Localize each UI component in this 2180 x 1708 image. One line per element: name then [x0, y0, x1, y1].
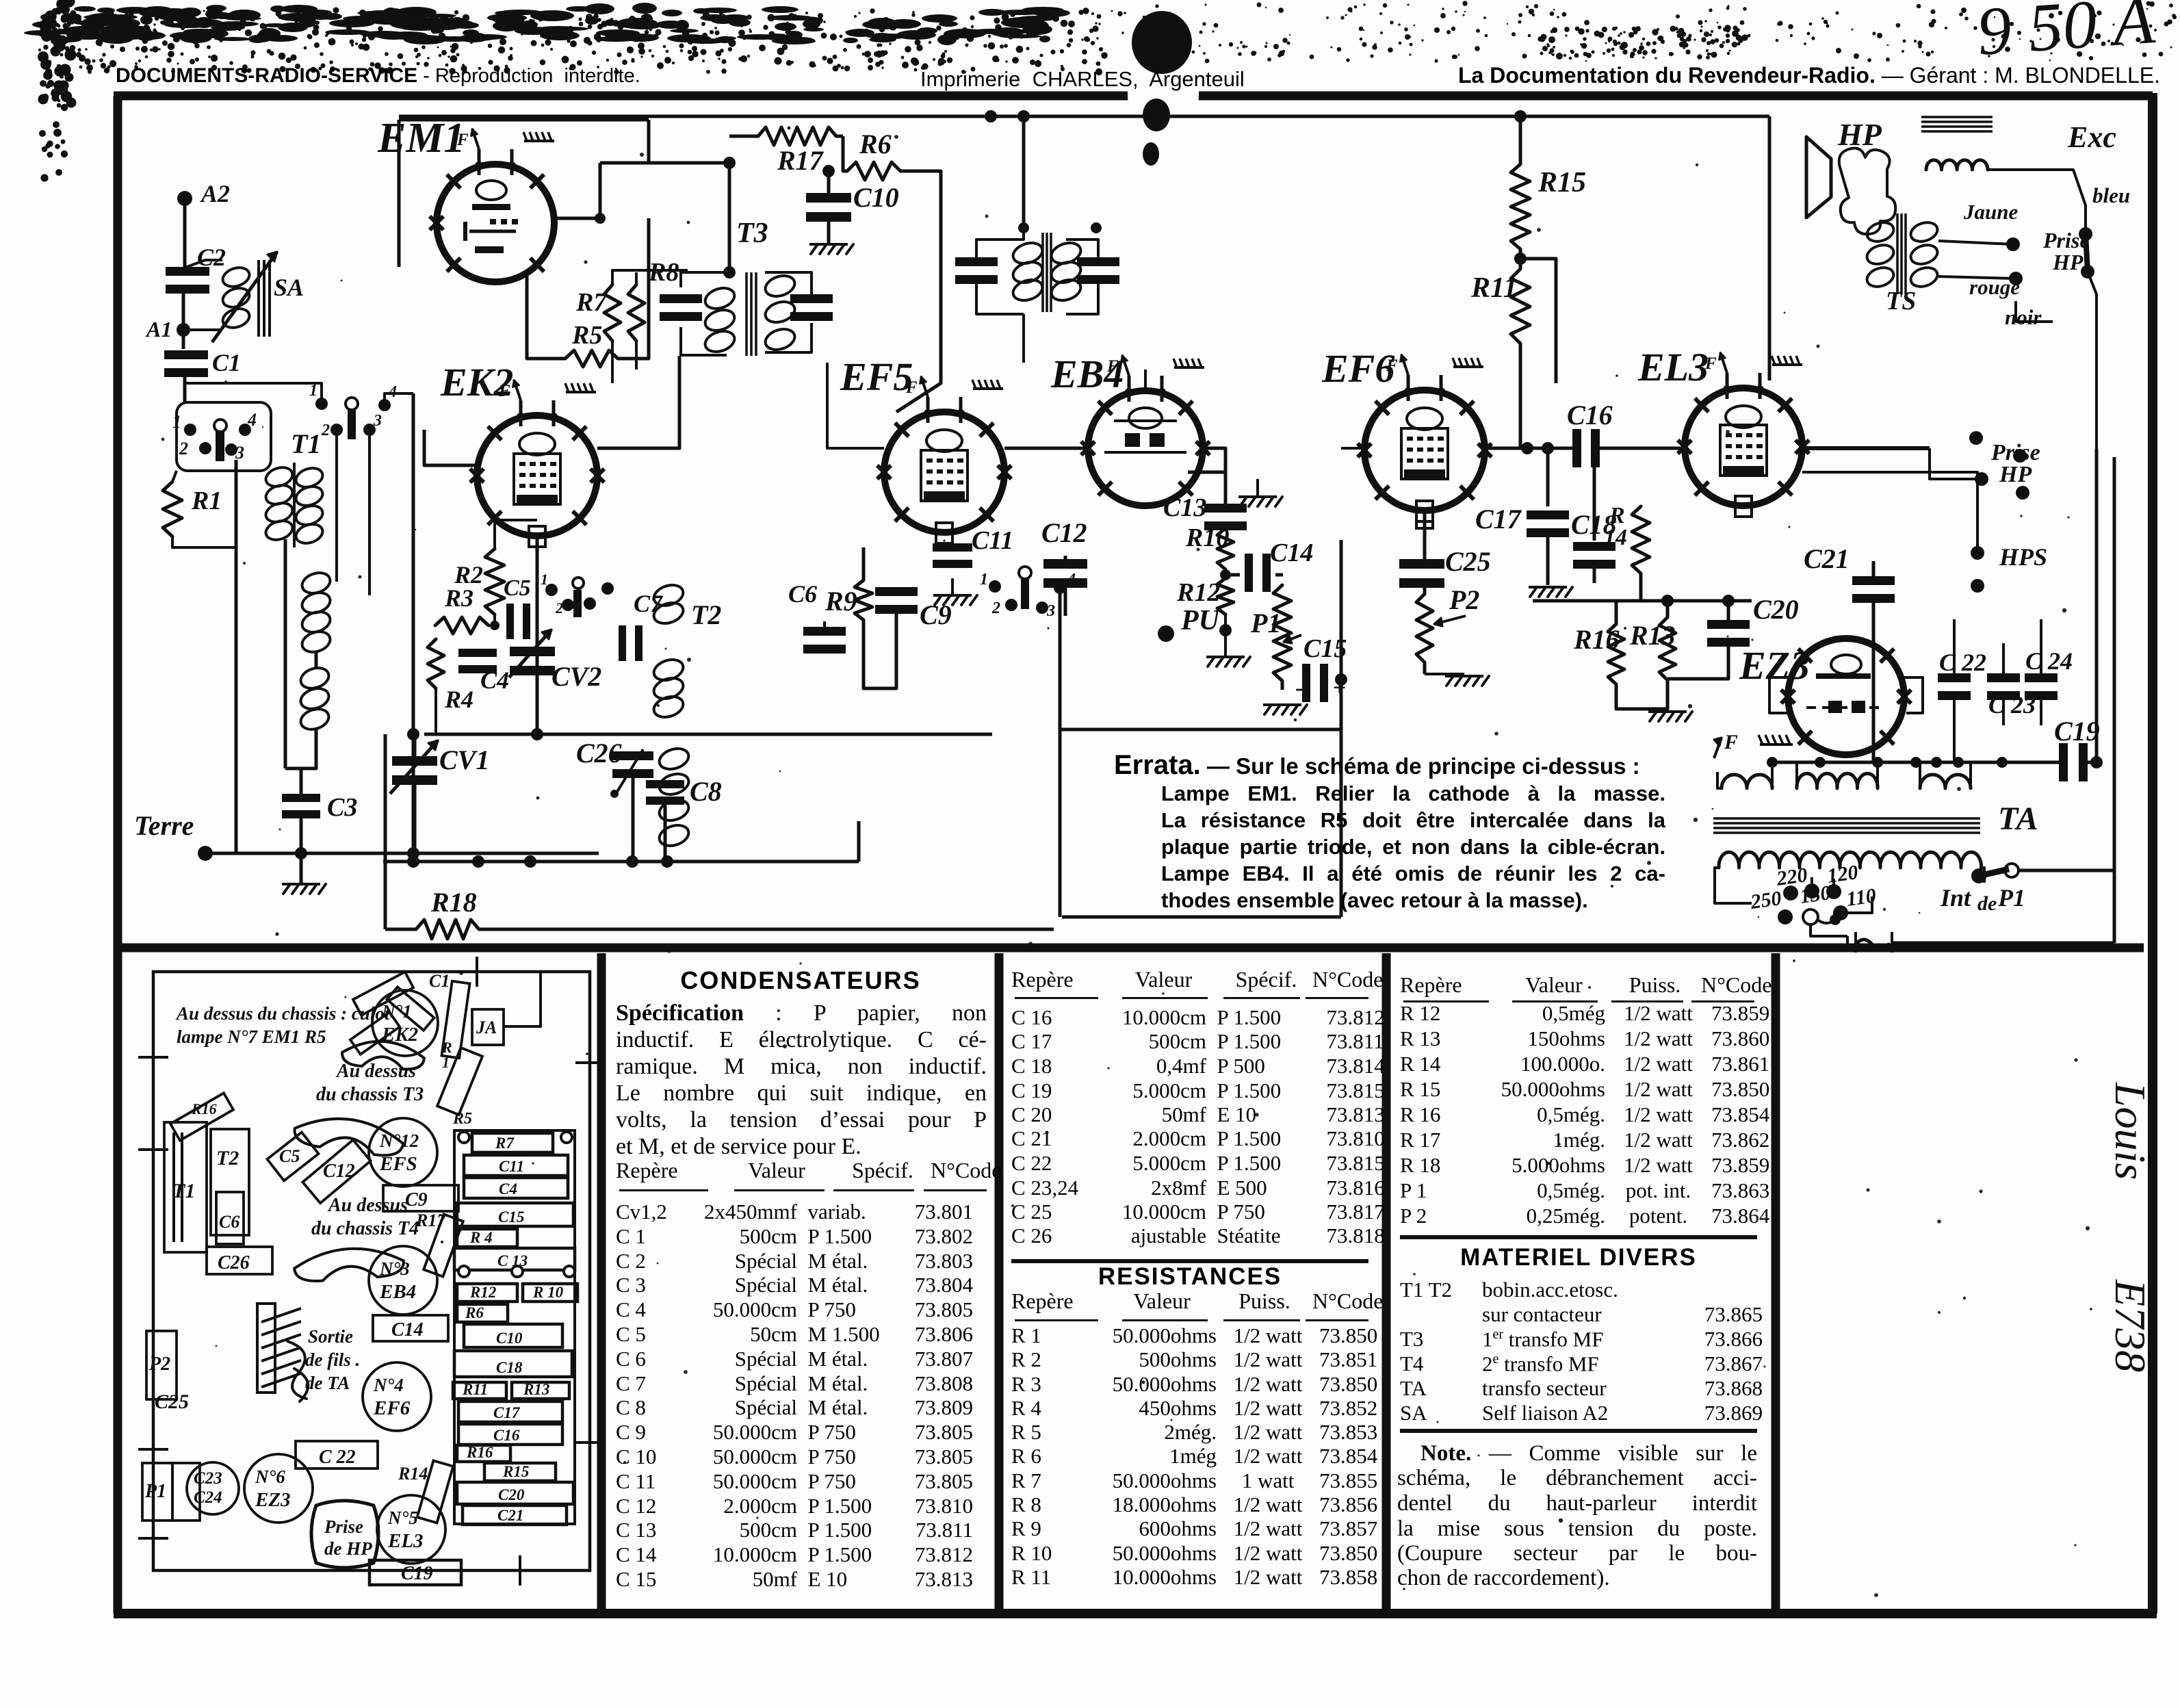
svg-text:Terre: Terre	[134, 810, 194, 841]
svg-text:EL3: EL3	[1637, 345, 1709, 389]
svg-text:R7: R7	[575, 288, 608, 317]
svg-text:C15: C15	[498, 1208, 524, 1226]
svg-text:R12: R12	[1176, 578, 1220, 607]
svg-text:Prise: Prise	[324, 1516, 363, 1537]
svg-text:C3: C3	[327, 793, 357, 822]
svg-text:C 22: C 22	[319, 1447, 356, 1468]
svg-text:T1: T1	[291, 428, 321, 459]
svg-text:Louis: Louis	[2106, 1082, 2155, 1180]
svg-text:R15: R15	[1537, 167, 1586, 198]
svg-text:T1: T1	[172, 1180, 195, 1202]
svg-text:F: F	[1724, 731, 1738, 753]
svg-text:CV2: CV2	[552, 661, 601, 692]
svg-text:EB4: EB4	[379, 1281, 416, 1303]
svg-text:P1: P1	[1250, 608, 1281, 638]
svg-text:C16: C16	[493, 1427, 520, 1444]
svg-text:C19: C19	[401, 1563, 433, 1584]
svg-text:R4: R4	[444, 686, 473, 713]
svg-text:C5: C5	[279, 1146, 300, 1166]
svg-text:rouge: rouge	[1969, 275, 2020, 299]
svg-text:Int: Int	[1940, 884, 1971, 911]
svg-text:2: 2	[555, 599, 563, 617]
svg-text:C10: C10	[853, 182, 899, 213]
svg-text:1: 1	[980, 571, 988, 588]
svg-text:C20: C20	[1753, 594, 1799, 625]
svg-text:T2: T2	[691, 599, 721, 630]
svg-text:bleu: bleu	[2092, 183, 2130, 207]
svg-text:EF6: EF6	[1321, 346, 1394, 391]
svg-text:C16: C16	[1567, 400, 1613, 430]
svg-text:EF6: EF6	[373, 1397, 411, 1419]
svg-text:C25: C25	[1445, 546, 1491, 577]
svg-text:C14: C14	[391, 1319, 424, 1341]
svg-text:R14: R14	[398, 1464, 428, 1484]
svg-text:de fils .: de fils .	[305, 1349, 360, 1370]
svg-text:P1: P1	[1997, 884, 2025, 911]
svg-text:R5: R5	[571, 321, 602, 350]
svg-text:3: 3	[1046, 602, 1055, 620]
svg-text:Au dessus du chassis : culot: Au dessus du chassis : culot	[175, 1003, 391, 1024]
svg-text:C4: C4	[499, 1180, 517, 1198]
svg-text:R6: R6	[465, 1304, 484, 1321]
svg-text:C19: C19	[2054, 716, 2100, 747]
svg-text:R12: R12	[469, 1284, 496, 1301]
svg-text:N°1: N°1	[381, 1001, 412, 1022]
svg-text:C2: C2	[197, 244, 226, 271]
svg-text:R13: R13	[1629, 620, 1676, 651]
svg-text:C14: C14	[1270, 539, 1313, 567]
svg-text:R 10: R 10	[532, 1284, 564, 1301]
svg-text:PU: PU	[1180, 605, 1221, 636]
svg-text:Exc: Exc	[2067, 120, 2116, 154]
svg-text:R11: R11	[462, 1381, 488, 1398]
svg-text:120: 120	[1826, 861, 1859, 888]
svg-text:JA: JA	[476, 1018, 497, 1037]
svg-text:T2: T2	[216, 1147, 239, 1169]
svg-text:TA: TA	[1998, 801, 2038, 837]
svg-text:R16: R16	[191, 1100, 217, 1117]
svg-text:CV1: CV1	[439, 745, 489, 775]
svg-text:EB4: EB4	[1050, 352, 1124, 396]
svg-text:HP: HP	[1837, 117, 1882, 152]
svg-text:C17: C17	[493, 1404, 521, 1421]
svg-text:HP: HP	[1999, 462, 2032, 487]
svg-text:E738: E738	[2106, 1279, 2155, 1372]
svg-text:R11: R11	[1470, 272, 1518, 304]
svg-text:R10: R10	[1185, 523, 1229, 552]
svg-text:C21: C21	[1804, 543, 1850, 574]
svg-text:Jaune: Jaune	[1963, 200, 2018, 224]
svg-text:C12: C12	[1041, 517, 1087, 548]
svg-text:R6: R6	[859, 129, 892, 159]
svg-text:4: 4	[247, 410, 257, 430]
svg-text:N°4: N°4	[373, 1375, 404, 1395]
svg-text:C20: C20	[498, 1486, 525, 1503]
svg-text:Prise: Prise	[2042, 228, 2090, 253]
svg-text:C25: C25	[155, 1390, 189, 1413]
svg-text:R 4: R 4	[469, 1229, 493, 1246]
svg-text:de HP: de HP	[324, 1538, 372, 1559]
svg-text:C 22: C 22	[1939, 649, 1986, 676]
svg-text:C23: C23	[194, 1469, 222, 1488]
svg-text:N°3: N°3	[379, 1258, 410, 1279]
svg-text:R8: R8	[648, 258, 679, 287]
svg-text:C6: C6	[788, 580, 817, 608]
svg-text:A2: A2	[200, 180, 230, 207]
svg-text:C5: C5	[504, 575, 531, 601]
svg-text:SA: SA	[274, 274, 304, 301]
svg-text:R17: R17	[777, 145, 825, 176]
svg-text:R16: R16	[466, 1444, 493, 1461]
svg-text:R7: R7	[495, 1135, 515, 1152]
svg-text:R1: R1	[191, 487, 222, 515]
svg-text:du chassis T3: du chassis T3	[316, 1084, 424, 1105]
svg-text:de TA: de TA	[305, 1373, 350, 1393]
svg-text:N°6: N°6	[255, 1466, 285, 1487]
svg-text:C8: C8	[690, 776, 722, 807]
svg-text:C6: C6	[219, 1212, 239, 1232]
svg-text:HPS: HPS	[1999, 543, 2047, 571]
svg-text:de: de	[1977, 892, 1997, 915]
svg-text:A1: A1	[145, 317, 172, 341]
svg-text:1: 1	[172, 412, 181, 432]
svg-text:Au dessus: Au dessus	[327, 1195, 408, 1216]
svg-text:noir: noir	[2005, 305, 2042, 329]
svg-text:C17: C17	[1475, 504, 1522, 534]
svg-text:EF5: EF5	[840, 354, 913, 399]
svg-text:C11: C11	[499, 1158, 524, 1175]
svg-text:HP: HP	[2052, 250, 2084, 274]
svg-text:P2: P2	[148, 1354, 170, 1375]
svg-text:C24: C24	[194, 1488, 222, 1507]
svg-text:14: 14	[1604, 525, 1627, 550]
svg-text:3: 3	[373, 412, 382, 430]
svg-text:C18: C18	[496, 1359, 523, 1376]
svg-text:R5: R5	[452, 1110, 472, 1128]
svg-text:R16: R16	[1573, 624, 1620, 655]
svg-text:P2: P2	[1449, 584, 1479, 615]
svg-text:C11: C11	[972, 526, 1013, 555]
svg-text:lampe N°7 EM1 R5: lampe N°7 EM1 R5	[177, 1026, 326, 1047]
svg-text:1: 1	[442, 1054, 450, 1071]
svg-text:P1: P1	[144, 1481, 166, 1502]
svg-text:EM1: EM1	[377, 115, 465, 161]
svg-text:250: 250	[1748, 887, 1782, 914]
svg-text:C9: C9	[405, 1189, 428, 1211]
svg-text:C1: C1	[429, 971, 450, 991]
svg-text:EK2: EK2	[440, 360, 513, 404]
svg-text:C13: C13	[1163, 493, 1206, 522]
svg-text:2: 2	[991, 599, 1000, 617]
svg-text:9 50 A: 9 50 A	[1975, 0, 2157, 70]
svg-text:EFS: EFS	[379, 1153, 417, 1175]
svg-text:C1: C1	[212, 349, 241, 376]
svg-text:EL3: EL3	[387, 1530, 424, 1552]
svg-text:R17: R17	[415, 1211, 446, 1230]
svg-text:2: 2	[179, 439, 188, 458]
svg-text:R18: R18	[430, 887, 477, 918]
svg-text:R9: R9	[825, 586, 857, 617]
svg-text:R15: R15	[502, 1463, 529, 1480]
svg-text:-: -	[1295, 675, 1303, 701]
svg-text:R3: R3	[444, 584, 473, 612]
svg-text:C12: C12	[323, 1161, 355, 1182]
svg-text:C 24: C 24	[2025, 647, 2073, 675]
svg-text:N°5: N°5	[387, 1508, 418, 1528]
svg-text:Sortie: Sortie	[308, 1326, 353, 1347]
svg-text:TS: TS	[1886, 287, 1916, 315]
svg-text:T3: T3	[736, 218, 768, 249]
svg-text:du chassis T4: du chassis T4	[311, 1218, 419, 1239]
svg-text:C4: C4	[480, 667, 509, 694]
svg-text:N°12: N°12	[379, 1130, 419, 1151]
svg-text:4: 4	[1067, 571, 1076, 588]
svg-text:C10: C10	[496, 1330, 523, 1347]
svg-text:R13: R13	[523, 1381, 549, 1398]
svg-text:EZ3: EZ3	[255, 1489, 291, 1511]
svg-text:3: 3	[235, 443, 244, 463]
svg-text:2: 2	[321, 422, 330, 439]
svg-text:1: 1	[541, 571, 548, 588]
svg-text:C26: C26	[218, 1252, 250, 1273]
svg-text:EZ3: EZ3	[1739, 643, 1810, 688]
svg-text:C21: C21	[497, 1507, 523, 1524]
